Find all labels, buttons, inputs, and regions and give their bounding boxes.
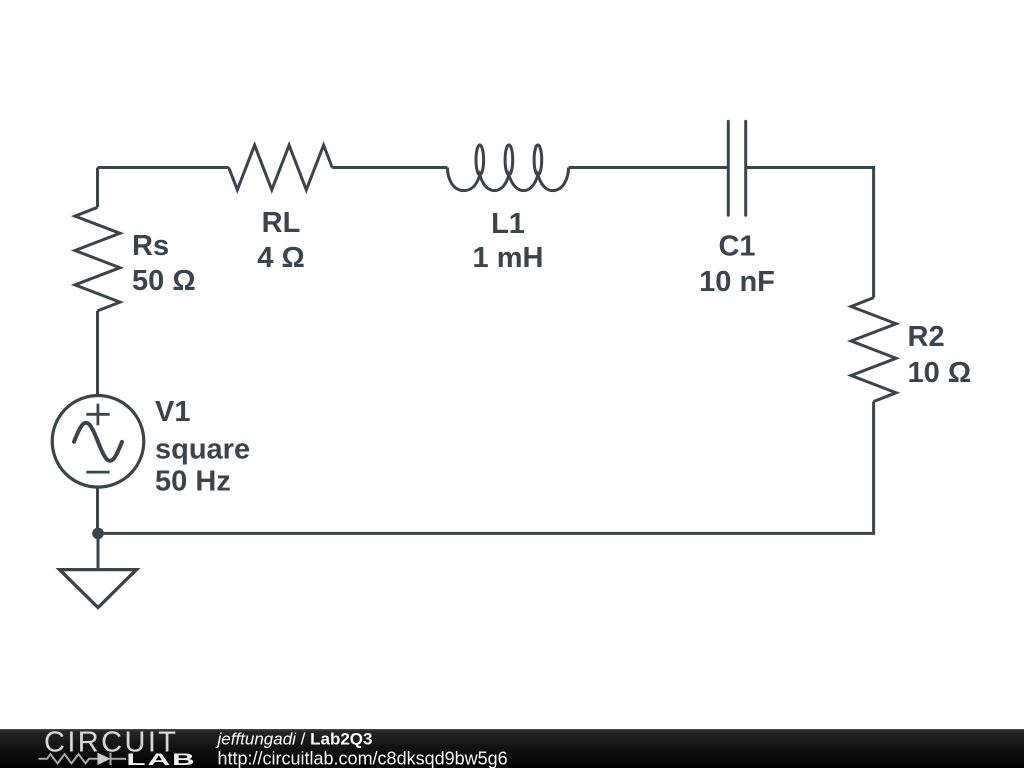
source V1 circle <box>52 396 144 488</box>
svg-text:V1: V1 <box>155 396 190 428</box>
wire left rail top <box>96 168 99 208</box>
ground symbol <box>60 570 137 608</box>
resistor Rs <box>75 207 120 311</box>
wire R2 to bottom-right corner <box>98 402 874 534</box>
resistor R2 <box>851 298 896 402</box>
svg-text:4 Ω: 4 Ω <box>257 242 304 274</box>
wire C1 to top-right corner <box>746 168 874 298</box>
wire L1 to C1 <box>569 166 729 169</box>
wire Rs to V1 <box>96 311 99 396</box>
svg-text:http://circuitlab.com/c8dksqd9: http://circuitlab.com/c8dksqd9bw5g6 <box>218 749 508 768</box>
logo diode triangle <box>98 753 111 765</box>
svg-text:Rs: Rs <box>132 230 169 262</box>
logo resistor-diode squiggle <box>39 753 127 765</box>
svg-text:square: square <box>155 434 250 466</box>
resistor RL <box>229 145 333 190</box>
svg-text:jefftungadi / Lab2Q3: jefftungadi / Lab2Q3 <box>216 729 373 748</box>
svg-text:LAB: LAB <box>126 750 196 768</box>
wire top-left horizontal <box>98 166 229 169</box>
svg-text:RL: RL <box>262 207 301 239</box>
wire RL to L1 <box>332 166 447 169</box>
capacitor C1 <box>728 121 745 215</box>
source V1 sine wave <box>74 423 122 461</box>
wire V1 to ground node <box>96 487 99 533</box>
svg-text:1 mH: 1 mH <box>473 242 544 274</box>
svg-text:10 nF: 10 nF <box>699 266 775 298</box>
svg-text:L1: L1 <box>491 208 525 240</box>
svg-text:50 Ω: 50 Ω <box>132 265 196 297</box>
source V1 plus sign <box>86 404 109 426</box>
wire node to ground <box>97 533 100 569</box>
svg-text:C1: C1 <box>718 231 755 263</box>
svg-text:50 Hz: 50 Hz <box>155 466 231 498</box>
svg-text:10 Ω: 10 Ω <box>908 357 972 389</box>
node junction dot <box>92 528 104 540</box>
footer bar <box>0 729 1024 768</box>
svg-text:R2: R2 <box>908 321 945 353</box>
inductor L1 <box>447 145 568 191</box>
source V1 minus sign <box>86 471 109 474</box>
